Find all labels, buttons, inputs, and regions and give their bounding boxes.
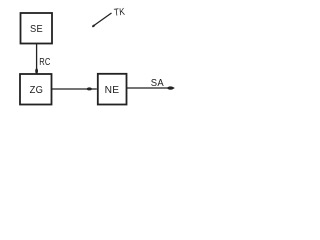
svg-text:ZG: ZG xyxy=(30,85,44,96)
svg-text:NE: NE xyxy=(105,85,120,96)
svg-text:SE: SE xyxy=(30,24,43,35)
svg-text:RC: RC xyxy=(39,57,50,68)
svg-text:SA: SA xyxy=(151,78,164,89)
svg-text:TK: TK xyxy=(114,7,126,19)
